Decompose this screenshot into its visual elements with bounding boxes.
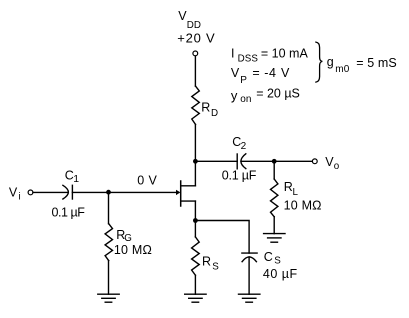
wire Vi to C1 bbox=[33, 191, 68, 193]
brace for gm0 bbox=[316, 42, 322, 82]
wire source node to RS bbox=[194, 221, 196, 237]
wire RS to ground bbox=[194, 275, 196, 294]
svg-text:V: V bbox=[281, 66, 290, 80]
wire C2 to output node bbox=[241, 160, 274, 162]
node output junction bbox=[272, 159, 277, 164]
node gate junction bbox=[106, 190, 111, 195]
wire RL to ground bbox=[273, 217, 275, 234]
label RG bbox=[116, 228, 132, 244]
value VP = -4 V bbox=[231, 66, 290, 86]
node drain junction bbox=[193, 159, 198, 164]
svg-text:S: S bbox=[274, 255, 281, 266]
ground (RL) bbox=[264, 234, 285, 243]
label C1 bbox=[65, 168, 80, 185]
svg-text:i: i bbox=[19, 192, 21, 203]
svg-text:V: V bbox=[9, 185, 18, 199]
wire VDD to RD bbox=[194, 56, 196, 86]
svg-text:C: C bbox=[264, 250, 273, 264]
svg-text:g: g bbox=[327, 55, 334, 69]
node Vi terminal bbox=[28, 190, 33, 195]
svg-text:R: R bbox=[202, 254, 211, 268]
svg-text:0 V: 0 V bbox=[137, 174, 157, 188]
label RL bbox=[284, 180, 299, 198]
node source junction bbox=[193, 218, 198, 223]
wire CS to ground bbox=[248, 257, 250, 294]
svg-text:0.1 µF: 0.1 µF bbox=[222, 169, 257, 183]
wire drain node to C2 bbox=[195, 160, 237, 162]
wire gate node to RG bbox=[108, 192, 110, 223]
node Vi label bbox=[9, 185, 21, 202]
svg-text:y: y bbox=[231, 88, 238, 103]
ground (RG) bbox=[98, 294, 119, 302]
svg-text:10 MΩ: 10 MΩ bbox=[114, 243, 152, 257]
svg-text:m0: m0 bbox=[335, 64, 349, 75]
svg-text:L: L bbox=[293, 187, 299, 198]
wire RG to ground bbox=[108, 261, 110, 295]
label RS bbox=[202, 254, 219, 272]
label CS bbox=[264, 250, 282, 266]
svg-text:S: S bbox=[212, 262, 219, 273]
resistor RG bbox=[105, 224, 112, 261]
label RD bbox=[201, 101, 218, 120]
svg-text:0.1 µF: 0.1 µF bbox=[52, 206, 86, 220]
wire gate node to JFET gate bbox=[109, 191, 177, 193]
svg-text:on: on bbox=[240, 94, 251, 105]
svg-text:= -4: = -4 bbox=[252, 66, 276, 80]
node Vo terminal bbox=[312, 159, 317, 164]
svg-text:V: V bbox=[231, 66, 240, 80]
resistor RD bbox=[192, 86, 200, 124]
value gm0 = 5 mS bbox=[327, 55, 397, 75]
ground (RS) bbox=[185, 294, 206, 302]
capacitor CS bbox=[242, 253, 257, 262]
wire RD to drain node bbox=[194, 124, 196, 161]
wire output node to Vo terminal bbox=[274, 160, 312, 162]
svg-text:G: G bbox=[124, 233, 132, 244]
svg-text:= 20 µS: = 20 µS bbox=[256, 87, 300, 101]
resistor RS bbox=[192, 237, 200, 275]
value IDSS = 10 mA bbox=[231, 46, 308, 64]
svg-text:DD: DD bbox=[187, 20, 201, 31]
svg-text:2: 2 bbox=[241, 141, 247, 152]
svg-text:DSS: DSS bbox=[238, 53, 259, 64]
svg-text:40 µF: 40 µF bbox=[263, 267, 298, 281]
svg-text:1: 1 bbox=[73, 173, 79, 185]
svg-text:o: o bbox=[334, 161, 340, 172]
value yon = 20 uS bbox=[231, 87, 300, 105]
svg-text:P: P bbox=[240, 75, 247, 86]
resistor RL bbox=[271, 179, 278, 217]
svg-text:= 10 mA: = 10 mA bbox=[261, 46, 309, 60]
node VDD label bbox=[177, 9, 215, 45]
node Vo label bbox=[325, 155, 339, 172]
svg-text:D: D bbox=[211, 108, 218, 119]
svg-text:I: I bbox=[231, 46, 235, 60]
label C2 bbox=[232, 135, 246, 152]
wire source node to CS bbox=[195, 221, 249, 254]
transistor Q1 JFET bbox=[176, 161, 195, 220]
svg-text:+20 V: +20 V bbox=[177, 31, 215, 46]
node VDD terminal bbox=[193, 51, 198, 56]
wire C1 to gate node bbox=[72, 191, 108, 193]
svg-text:10 MΩ: 10 MΩ bbox=[284, 199, 322, 213]
capacitor C2 bbox=[237, 154, 246, 169]
wire output node to RL bbox=[273, 161, 275, 179]
ground (CS) bbox=[239, 294, 260, 302]
capacitor C1 bbox=[63, 185, 73, 199]
svg-text:R: R bbox=[201, 101, 210, 115]
svg-text:= 5 mS: = 5 mS bbox=[356, 56, 397, 70]
